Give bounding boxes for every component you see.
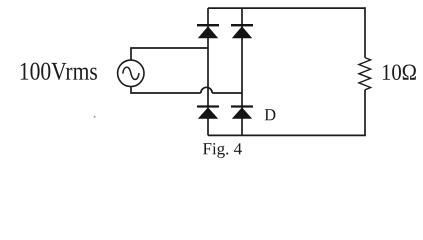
diode D4 bottom-right triangle (232, 107, 252, 118)
svg-text:D: D (264, 105, 276, 124)
stray scan speck (94, 116, 96, 118)
diode D2 top-right cathode bar (231, 24, 253, 26)
diode D2 top-right triangle (232, 26, 252, 38)
diode D4 bottom-right cathode bar (231, 105, 253, 107)
wire source lead to right branch (212, 92, 242, 94)
diode D3 bottom-left cathode bar (197, 105, 219, 107)
wire right rail lower (364, 90, 366, 136)
wire source bottom lead (131, 87, 201, 94)
wire source top lead (131, 48, 208, 60)
wire left bridge branch (207, 8, 209, 135)
sine symbol inside source (123, 67, 139, 79)
wire top rail (208, 7, 365, 9)
svg-text:100Vrms: 100Vrms (19, 57, 98, 86)
wire bottom rail (208, 134, 366, 136)
AC source VS circle (118, 60, 144, 86)
wire right rail upper (364, 7, 366, 57)
wire crossover hop (201, 87, 212, 93)
svg-text:10Ω: 10Ω (381, 60, 417, 85)
svg-text:Fig. 4: Fig. 4 (202, 139, 242, 158)
diode D3 bottom-left triangle (198, 107, 218, 118)
diode D1 top-left cathode bar (197, 24, 219, 26)
diode D1 top-left triangle (198, 26, 218, 38)
resistor R (10 ohm) zigzag (359, 58, 371, 90)
wire right bridge branch (241, 8, 243, 135)
